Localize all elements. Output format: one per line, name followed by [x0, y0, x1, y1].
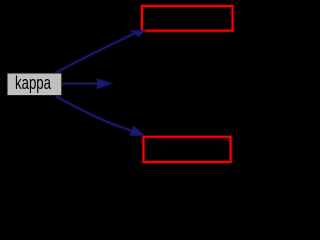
- svg-text:kappa: kappa: [15, 72, 52, 93]
